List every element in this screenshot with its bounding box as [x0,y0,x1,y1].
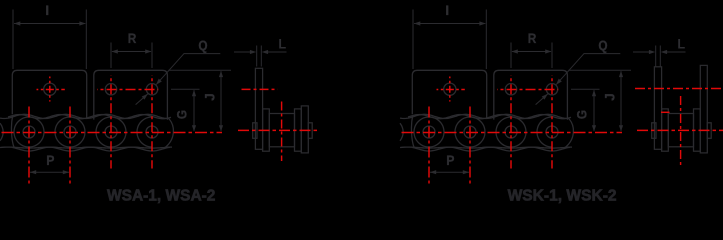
svg-text:WSA-1, WSA-2: WSA-1, WSA-2 [107,188,215,205]
pin end cap right [308,123,312,139]
dim L line right segment [268,51,287,53]
svg-text:L: L [677,35,685,51]
inner plate right [295,109,302,151]
attachment holes centerline (red) [635,88,723,90]
main centerline (red) [238,129,317,131]
pin end cap left [253,123,257,139]
pin end cap left [652,123,656,139]
outer plate right (attachment plate) [700,65,707,152]
outer plate left (attachment plate) [654,67,661,150]
bushing/roller [269,114,294,147]
outer plate right [301,106,308,153]
main centerline (red) [637,129,723,131]
bushing/roller [668,114,693,147]
inner plate left [263,109,270,151]
svg-text:L: L [278,35,286,51]
right drawing: WSK end view [633,35,723,165]
inner plate left [662,109,669,151]
arrowhead dim L right [661,50,667,54]
left drawing: WSA end view [234,35,317,161]
end view (cross-section) for WSA [234,46,312,153]
dim L line left segment [633,51,650,53]
arrowhead dim L left [649,50,655,54]
vertical centerline (red) [281,102,283,162]
svg-text:WSK-1, WSK-2: WSK-1, WSK-2 [508,188,617,205]
left drawing: WSA side view [0,2,231,184]
outer plate left (attachment plate) [255,68,262,149]
pin end cap right [707,123,711,139]
inner plate right [694,109,701,151]
attachment hole centerline (red) [242,88,278,90]
vertical centerline (red) [680,96,682,165]
dim L line right segment [667,51,686,53]
dim L extension lines [256,46,258,67]
dim L extension lines [655,46,657,67]
small red dash [661,111,670,113]
arrowhead dim L left [250,50,256,54]
right drawing: WSK side view [399,2,631,184]
arrowhead dim L right [262,50,268,54]
end view (cross-section) for WSK [633,46,711,153]
dim L line left segment [234,51,251,53]
